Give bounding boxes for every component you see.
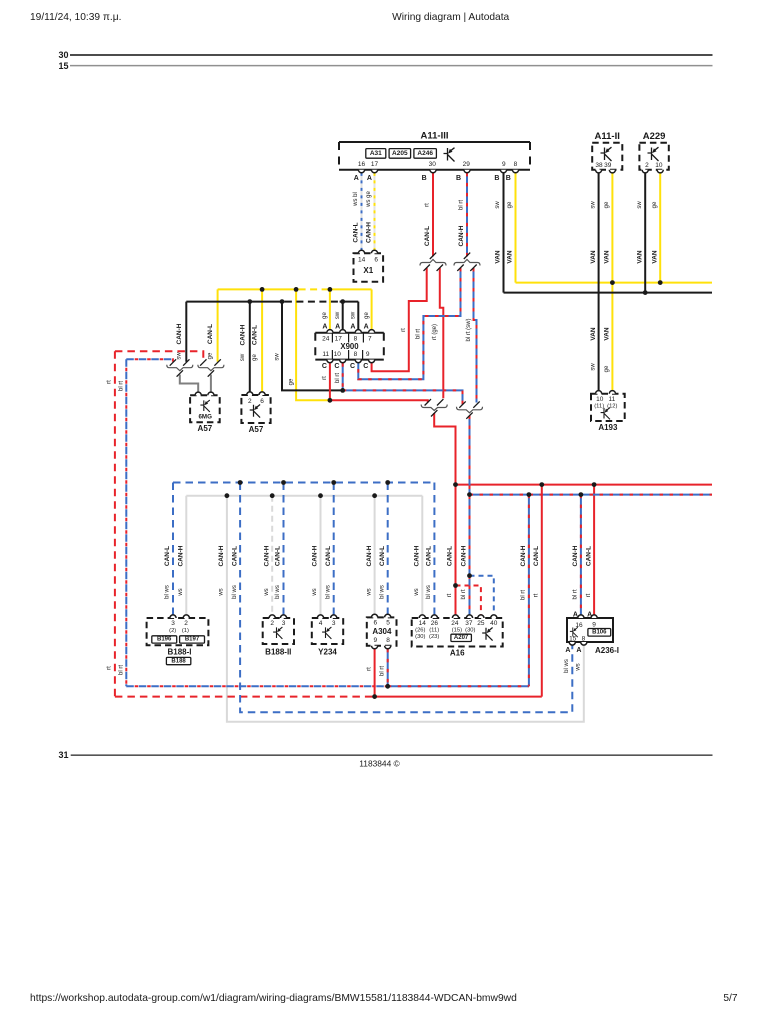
svg-text:ws: ws bbox=[312, 588, 318, 596]
svg-text:B: B bbox=[506, 175, 511, 182]
wire sw drop to X900 pin 8 bbox=[357, 302, 359, 331]
wire sw drop joining bl rt at X900 pin 10 node bbox=[282, 302, 343, 391]
svg-text:1183844 ©: 1183844 © bbox=[359, 759, 400, 769]
svg-text:B188-II: B188-II bbox=[265, 647, 291, 656]
svg-text:rt: rt bbox=[106, 380, 112, 384]
svg-text:CAN-L: CAN-L bbox=[353, 222, 360, 242]
wire bl ws CAN-L drop to A16 pin 26 bbox=[433, 483, 435, 616]
svg-text:rt: rt bbox=[401, 328, 407, 332]
svg-text:2: 2 bbox=[184, 620, 188, 627]
svg-text:ws: ws bbox=[576, 663, 582, 671]
A16 inner label A207 bbox=[451, 634, 472, 641]
svg-text:(30): (30) bbox=[465, 628, 475, 634]
svg-text:(30): (30) bbox=[415, 634, 425, 640]
svg-text:bl ws: bl ws bbox=[379, 585, 385, 599]
wire bl rt (sw) branch right to lower break bbox=[474, 268, 477, 403]
wire ge VAN from A11-III pin 8 bbox=[515, 173, 517, 283]
svg-text:bl rt: bl rt bbox=[118, 665, 124, 675]
control unit A193 box bbox=[591, 394, 625, 421]
svg-text:30: 30 bbox=[429, 161, 437, 168]
svg-text:A57: A57 bbox=[249, 425, 264, 434]
A193 ecu icon bbox=[601, 408, 610, 420]
inline connector break merge rt / rt (ge) bbox=[425, 399, 431, 405]
wire bl ws CAN-L drop to A304 pin 5 bbox=[387, 483, 389, 616]
connector X900 box bbox=[315, 333, 384, 360]
svg-text:A: A bbox=[367, 175, 372, 182]
A11-III inner label A246 bbox=[414, 149, 437, 159]
A236-I ecu icon bbox=[570, 627, 578, 637]
ground rail 31 line bbox=[71, 754, 713, 756]
A11-II ecu icon bbox=[601, 147, 612, 161]
junction dot black VAN bus bbox=[643, 290, 648, 295]
control unit A229 box bbox=[639, 143, 668, 170]
svg-text:rt: rt bbox=[322, 376, 328, 380]
svg-text:(15): (15) bbox=[452, 628, 462, 634]
svg-text:sw: sw bbox=[495, 201, 501, 209]
wire ge drop to X900 pin 24 bbox=[329, 289, 331, 330]
junction dot A304 pin 8 bottom bbox=[385, 684, 390, 689]
wire rt from X900 pin 11 bbox=[329, 363, 331, 400]
junction dots middle yellow bus bbox=[260, 287, 265, 292]
svg-text:CAN-L: CAN-L bbox=[424, 226, 431, 246]
svg-text:ge: ge bbox=[322, 312, 328, 319]
component B188-II box bbox=[263, 618, 294, 644]
svg-text:bl rt: bl rt bbox=[521, 590, 527, 600]
middle black bus solid left part bbox=[186, 301, 285, 303]
svg-text:B196: B196 bbox=[157, 637, 172, 643]
svg-text:A: A bbox=[364, 324, 369, 331]
svg-text:bl ws: bl ws bbox=[325, 585, 331, 599]
control unit A57-2 box bbox=[241, 395, 270, 423]
svg-text:VAN: VAN bbox=[590, 327, 597, 341]
X900 pin separators bbox=[332, 333, 363, 360]
svg-text:ge: ge bbox=[289, 378, 295, 385]
wire bl ws CAN-L drop to Y234 pin 3 bbox=[333, 483, 335, 616]
svg-text:15: 15 bbox=[58, 61, 68, 71]
svg-text:CAN-H: CAN-H bbox=[178, 545, 185, 566]
wire ws CAN-H drop to B188-II pin 2 (dashed) bbox=[271, 496, 273, 616]
svg-text:26: 26 bbox=[431, 620, 439, 627]
svg-text:3: 3 bbox=[332, 620, 336, 627]
wire bl rt left dashed riser bbox=[125, 359, 127, 686]
junction dot X900 pin 11 node bbox=[328, 398, 333, 403]
svg-text:(1): (1) bbox=[182, 628, 189, 634]
svg-text:3: 3 bbox=[282, 620, 286, 627]
wire rt from A304 pin 9 bbox=[374, 649, 376, 697]
wire bl rt CAN-H to A236-I pin 16 bbox=[580, 495, 582, 616]
middle yellow bus solid left part bbox=[218, 288, 299, 290]
A16 ecu icon bbox=[482, 628, 492, 641]
wire ws CAN-H drop to Y234 pin 4 bbox=[320, 496, 322, 616]
svg-text:25: 25 bbox=[477, 620, 485, 627]
svg-text:11: 11 bbox=[322, 351, 329, 358]
wire bl rt from A304 pin 8 bbox=[387, 649, 389, 686]
svg-text:sw: sw bbox=[275, 353, 281, 361]
A57-2 ecu icon bbox=[250, 405, 260, 418]
wire bl rt dashed jumper to A16 pin 40 bbox=[470, 576, 494, 616]
svg-text:30: 30 bbox=[58, 50, 68, 60]
svg-text:A193: A193 bbox=[598, 423, 618, 432]
svg-text:bl rt: bl rt bbox=[573, 589, 579, 599]
junction dot A16 pin 25 jumper bbox=[453, 583, 458, 588]
svg-text:CAN-L: CAN-L bbox=[447, 546, 454, 566]
svg-text:5/7: 5/7 bbox=[723, 993, 737, 1004]
wire bl rt CAN-H drop to bottom run bbox=[528, 495, 530, 687]
svg-text:CAN-H: CAN-H bbox=[312, 545, 319, 566]
B188-I outer label B188 bbox=[166, 657, 190, 664]
wire ws CAN-H drop to A304 pin 6 bbox=[374, 496, 376, 616]
svg-text:C: C bbox=[334, 363, 339, 370]
svg-text:CAN-L: CAN-L bbox=[426, 546, 433, 566]
svg-text:bl ws: bl ws bbox=[426, 585, 432, 599]
wire rt left dashed riser bbox=[114, 351, 116, 696]
wire bl rt merged output to blue CAN-H bus and A16 pin 37 bbox=[469, 416, 471, 616]
wire rt CAN-L from A11-III pin 30 bbox=[432, 173, 434, 256]
yellow VAN bus bbox=[516, 282, 713, 284]
B188-I inner label B197 bbox=[180, 636, 205, 643]
wire sw drop to X900 pin 17 bbox=[342, 302, 344, 331]
svg-text:VAN: VAN bbox=[636, 250, 643, 264]
junction dots yellow VAN bus bbox=[610, 280, 615, 285]
wire rt bottom solid run bbox=[375, 696, 542, 698]
svg-text:A205: A205 bbox=[392, 150, 408, 157]
middle black bus dashed segment bbox=[285, 301, 340, 303]
svg-text:CAN-H: CAN-H bbox=[366, 222, 373, 243]
svg-text:ge: ge bbox=[604, 365, 610, 372]
svg-text:15: 15 bbox=[569, 635, 577, 642]
wire ge CAN-L drop to A57-2 pin 6 bbox=[261, 289, 263, 392]
svg-text:19/11/24, 10:39 π.μ.: 19/11/24, 10:39 π.μ. bbox=[30, 12, 121, 23]
svg-text:B197: B197 bbox=[185, 637, 200, 643]
svg-text:CAN-H: CAN-H bbox=[572, 545, 579, 566]
wire ws CAN-H drop to B188-I pin 2 bbox=[185, 496, 187, 616]
svg-text:10: 10 bbox=[334, 351, 342, 358]
svg-text:4: 4 bbox=[319, 620, 323, 627]
wire ge VAN A229 pin 10 to yellow VAN bus bbox=[659, 173, 661, 283]
wire connector lead to A57 6MG pin 2 bbox=[210, 375, 212, 393]
svg-text:ws: ws bbox=[414, 588, 420, 596]
svg-text:2: 2 bbox=[270, 620, 274, 627]
wire rt merged output to red CAN-L bus and A16 pin 24 bbox=[434, 413, 455, 615]
svg-text:A207: A207 bbox=[454, 635, 469, 641]
svg-text:24: 24 bbox=[451, 620, 459, 627]
svg-text:A11-III: A11-III bbox=[421, 131, 449, 142]
svg-text:6: 6 bbox=[374, 256, 378, 263]
svg-text:A57: A57 bbox=[198, 424, 213, 433]
svg-text:ws ge: ws ge bbox=[366, 191, 372, 208]
svg-text:(11): (11) bbox=[429, 628, 439, 634]
svg-text:bl ws: bl ws bbox=[275, 585, 281, 599]
svg-text:bl rt: bl rt bbox=[335, 373, 341, 383]
svg-text:A: A bbox=[354, 175, 359, 182]
wire rt dashed top run to A57 6MG break bbox=[115, 351, 203, 362]
svg-text:A: A bbox=[350, 324, 355, 331]
wire sw CAN-H drop to A57 6MG break bbox=[185, 302, 187, 362]
wire rt bottom dashed run to left riser bbox=[115, 696, 375, 698]
svg-text:16: 16 bbox=[358, 161, 366, 168]
svg-text:A: A bbox=[565, 647, 570, 654]
svg-text:sw: sw bbox=[335, 311, 341, 319]
svg-text:ws bl: ws bl bbox=[353, 192, 359, 207]
junction dots red CAN-L bus bbox=[453, 482, 458, 487]
svg-text:VAN: VAN bbox=[651, 250, 658, 264]
svg-text:Y234: Y234 bbox=[318, 647, 337, 656]
svg-text:bl rt: bl rt bbox=[379, 666, 385, 676]
svg-text:CAN-L: CAN-L bbox=[252, 325, 259, 345]
wire ws CAN-H return from A236-I pin 8 bbox=[227, 496, 584, 722]
svg-text:37: 37 bbox=[465, 620, 473, 627]
control unit A11-III box bbox=[339, 142, 530, 170]
svg-text:CAN-H: CAN-H bbox=[366, 545, 373, 566]
wire rt dashed jumper to A16 pin 25 bbox=[456, 586, 481, 616]
svg-text:CAN-L: CAN-L bbox=[207, 324, 214, 344]
svg-text:CAN-L: CAN-L bbox=[585, 546, 592, 566]
svg-text:VAN: VAN bbox=[604, 327, 611, 341]
wire ge drop joining rt at X900 pin 11 node bbox=[296, 289, 330, 400]
svg-text:5: 5 bbox=[386, 619, 390, 626]
inline connector break on CAN-H bl rt below A11-III pin 29 bbox=[464, 253, 470, 259]
A229 ecu icon bbox=[648, 147, 659, 161]
middle yellow bus solid right part bbox=[328, 288, 372, 290]
blue dashed CAN-L left bus bbox=[173, 482, 434, 484]
middle yellow bus dashed segment bbox=[299, 288, 328, 290]
svg-text:bl rt: bl rt bbox=[118, 381, 124, 391]
control unit A57 6MG box bbox=[190, 395, 220, 422]
svg-text:(23): (23) bbox=[429, 634, 439, 640]
svg-text:sw: sw bbox=[240, 353, 246, 361]
component A236-I box bbox=[567, 618, 613, 642]
svg-text:A246: A246 bbox=[417, 150, 433, 157]
svg-text:A11-II: A11-II bbox=[595, 131, 620, 142]
svg-text:31: 31 bbox=[58, 750, 68, 760]
svg-text:C: C bbox=[363, 363, 368, 370]
svg-text:rt (ge): rt (ge) bbox=[432, 324, 438, 340]
svg-text:CAN-L: CAN-L bbox=[231, 546, 238, 566]
svg-text:9: 9 bbox=[592, 622, 596, 629]
svg-text:ge: ge bbox=[652, 201, 658, 208]
svg-text:C: C bbox=[322, 363, 327, 370]
svg-text:A: A bbox=[576, 647, 581, 654]
wire ws CAN-H drop to A16 pin 14 bbox=[421, 496, 423, 616]
wire sw CAN-H drop to A57-2 pin 2 bbox=[249, 302, 251, 393]
junction dot A16 pin 40 jumper bbox=[467, 573, 472, 578]
wire bl ws CAN-L drop to B188-I pin 3 bbox=[172, 483, 174, 616]
svg-text:ws: ws bbox=[366, 588, 372, 596]
svg-text:VAN: VAN bbox=[507, 250, 514, 264]
svg-text:VAN: VAN bbox=[495, 250, 502, 264]
wire sw VAN from A11-III pin 9 bbox=[503, 173, 505, 293]
junction dots grey CAN-H left bus bbox=[225, 493, 230, 498]
wire bl rt branch left to X900 pin 8 bbox=[358, 268, 460, 379]
svg-text:ws: ws bbox=[178, 588, 184, 596]
svg-text:bl ws: bl ws bbox=[165, 585, 171, 599]
svg-text:bl rt: bl rt bbox=[461, 589, 467, 599]
svg-text:sw: sw bbox=[176, 352, 182, 360]
svg-text:6: 6 bbox=[373, 619, 377, 626]
svg-text:(26): (26) bbox=[415, 628, 425, 634]
Y234 ecu icon bbox=[322, 627, 331, 639]
svg-text:7: 7 bbox=[368, 335, 372, 342]
svg-text:sw: sw bbox=[351, 311, 357, 319]
svg-text:X1: X1 bbox=[363, 266, 373, 275]
svg-text:(2): (2) bbox=[169, 628, 176, 634]
svg-text:CAN-L: CAN-L bbox=[275, 546, 282, 566]
wire ws bl from A11-III pin 16 to X1 pin 14 bbox=[361, 173, 363, 251]
A57 6MG ecu icon bbox=[200, 400, 209, 412]
svg-text:bl rt: bl rt bbox=[416, 329, 422, 339]
svg-text:A: A bbox=[322, 324, 327, 331]
wire rt (ge) branch right to lower break bbox=[440, 268, 444, 398]
svg-text:9: 9 bbox=[373, 637, 377, 644]
svg-text:40: 40 bbox=[490, 620, 498, 627]
svg-text:6: 6 bbox=[260, 398, 264, 405]
svg-text:https://workshop.autodata-grou: https://workshop.autodata-group.com/w1/d… bbox=[30, 993, 517, 1004]
svg-text:VAN: VAN bbox=[604, 250, 611, 264]
svg-text:9: 9 bbox=[502, 161, 506, 168]
svg-text:A236-I: A236-I bbox=[595, 646, 619, 655]
component A304 box bbox=[367, 617, 397, 645]
svg-text:8: 8 bbox=[386, 637, 390, 644]
junction dots blue dashed CAN-L left bus bbox=[238, 480, 243, 485]
svg-text:10: 10 bbox=[655, 162, 663, 169]
svg-text:B: B bbox=[422, 175, 427, 182]
svg-text:38: 38 bbox=[595, 162, 603, 169]
wire rt branch left to X900 pin 9 bbox=[372, 268, 427, 371]
svg-text:A31: A31 bbox=[370, 150, 382, 157]
wire bl rt bottom dashed run to left riser bbox=[126, 685, 387, 687]
svg-text:2: 2 bbox=[645, 162, 649, 169]
svg-text:14: 14 bbox=[419, 620, 427, 627]
svg-text:CAN-H: CAN-H bbox=[263, 545, 270, 566]
svg-text:2: 2 bbox=[248, 398, 252, 405]
B188-I inner label B196 bbox=[152, 636, 177, 643]
svg-text:10: 10 bbox=[596, 396, 604, 403]
control unit A16 box bbox=[412, 618, 503, 647]
wire ge CAN-L drop to A57 6MG break bbox=[217, 289, 219, 361]
svg-text:rt: rt bbox=[447, 593, 453, 597]
svg-text:rt: rt bbox=[534, 593, 540, 597]
svg-text:A229: A229 bbox=[643, 131, 666, 142]
A11-III ecu icon bbox=[444, 148, 455, 162]
svg-text:A16: A16 bbox=[450, 648, 465, 657]
supply rail 30 line bbox=[70, 54, 713, 56]
wire rt CAN-L drop to bottom run bbox=[541, 485, 543, 697]
svg-text:14: 14 bbox=[358, 256, 366, 263]
B188-II ecu icon bbox=[273, 627, 282, 639]
control unit A11-II box bbox=[592, 143, 622, 170]
svg-text:CAN-H: CAN-H bbox=[414, 545, 421, 566]
svg-text:X900: X900 bbox=[340, 342, 359, 351]
black VAN bus bbox=[504, 292, 713, 294]
junction dot X900 pin 10 node bbox=[340, 388, 345, 393]
svg-text:11: 11 bbox=[609, 396, 616, 403]
svg-text:bl ws: bl ws bbox=[232, 585, 238, 599]
svg-text:CAN-L: CAN-L bbox=[379, 546, 386, 566]
middle black bus solid right part bbox=[340, 301, 359, 303]
blue CAN-H bus bbox=[470, 494, 713, 496]
svg-text:B106: B106 bbox=[592, 630, 607, 636]
svg-text:CAN-H: CAN-H bbox=[239, 324, 246, 345]
svg-text:C: C bbox=[350, 363, 355, 370]
svg-text:ge: ge bbox=[208, 352, 214, 359]
wire rt node to lower break input bbox=[330, 400, 428, 402]
svg-text:ge: ge bbox=[364, 312, 370, 319]
svg-text:CAN-L: CAN-L bbox=[533, 546, 540, 566]
wire bl ws CAN-L return from A236-I pin 15 bbox=[240, 483, 572, 713]
svg-text:bl rt: bl rt bbox=[459, 200, 465, 210]
svg-text:3: 3 bbox=[171, 620, 175, 627]
svg-text:29: 29 bbox=[463, 161, 471, 168]
svg-text:ws: ws bbox=[219, 588, 225, 596]
svg-text:A: A bbox=[587, 611, 592, 618]
junction dots middle black bus bbox=[247, 299, 252, 304]
svg-text:A304: A304 bbox=[372, 627, 392, 636]
svg-text:24: 24 bbox=[322, 335, 330, 342]
A11-III inner label A205 bbox=[389, 149, 411, 159]
svg-text:B188-I: B188-I bbox=[167, 647, 191, 656]
wire sw VAN A229 pin 2 to black VAN bus bbox=[644, 173, 646, 293]
wire bl rt (sw) node to lower break input bbox=[343, 390, 463, 404]
wire sw VAN A11-II pin 38 down to A193 pin 10 bbox=[598, 173, 600, 391]
wire connector lead to A57 6MG pin 1 bbox=[180, 375, 198, 393]
svg-text:CAN-H: CAN-H bbox=[461, 545, 468, 566]
svg-text:6MG: 6MG bbox=[198, 414, 212, 421]
component Y234 box bbox=[312, 618, 343, 644]
connector X1 box bbox=[354, 253, 384, 281]
junction dots blue CAN-H bus bbox=[467, 492, 472, 497]
svg-text:B: B bbox=[494, 175, 499, 182]
svg-text:CAN-H: CAN-H bbox=[520, 545, 527, 566]
svg-text:sw: sw bbox=[637, 201, 643, 209]
svg-text:CAN-L: CAN-L bbox=[164, 546, 171, 566]
svg-text:B: B bbox=[456, 175, 461, 182]
svg-text:sw: sw bbox=[590, 363, 596, 371]
svg-text:rt: rt bbox=[586, 593, 592, 597]
svg-text:A: A bbox=[335, 324, 340, 331]
wire rt CAN-L to A236-I pin 9 bbox=[593, 485, 595, 616]
wire ws CAN-H left bus bbox=[186, 495, 422, 497]
svg-text:B188: B188 bbox=[171, 658, 186, 664]
svg-text:ws: ws bbox=[264, 588, 270, 596]
wire ge drop to X900 pin 7 bbox=[371, 289, 373, 330]
svg-text:39: 39 bbox=[604, 162, 612, 169]
supply rail 15 line bbox=[70, 65, 713, 67]
svg-text:8: 8 bbox=[354, 351, 358, 358]
svg-text:rt: rt bbox=[106, 666, 112, 670]
inline connector break merge sw / bl rt at A57 6MG pin 1 bbox=[170, 359, 176, 365]
svg-text:rt: rt bbox=[366, 667, 372, 671]
svg-text:8: 8 bbox=[582, 635, 586, 642]
wire ws ge from A11-III pin 17 to X1 pin 6 bbox=[374, 173, 376, 251]
svg-text:(11): (11) bbox=[594, 404, 604, 410]
wire bl rt CAN-H from A11-III pin 29 bbox=[466, 173, 468, 256]
svg-text:CAN-H: CAN-H bbox=[176, 323, 183, 344]
svg-text:Wiring diagram | Autodata: Wiring diagram | Autodata bbox=[392, 12, 509, 23]
svg-text:bl rt (sw): bl rt (sw) bbox=[466, 319, 472, 342]
inline connector break on CAN-L rt below A11-III pin 30 bbox=[430, 253, 436, 259]
wire ge VAN A11-II pin 39 down to A193 pin 11 bbox=[611, 173, 613, 391]
A236-I inner label B106 bbox=[588, 629, 611, 637]
svg-text:sw: sw bbox=[590, 201, 596, 209]
svg-text:CAN-H: CAN-H bbox=[218, 545, 225, 566]
svg-text:ge: ge bbox=[252, 354, 258, 361]
wire bl ws CAN-L drop to B188-II pin 3 bbox=[283, 483, 285, 616]
svg-text:rt: rt bbox=[425, 203, 431, 207]
component B188-I box bbox=[147, 618, 209, 645]
svg-text:bl ws: bl ws bbox=[564, 659, 570, 673]
svg-text:CAN-L: CAN-L bbox=[325, 546, 332, 566]
wire bl rt from X900 pin 10 bbox=[342, 363, 344, 390]
